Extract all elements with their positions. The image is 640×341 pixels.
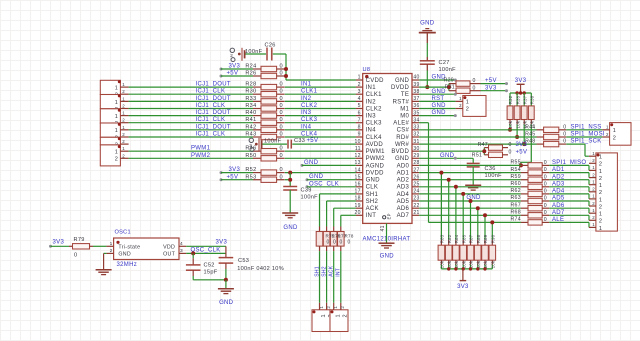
svg-text:IN3: IN3 — [366, 114, 377, 120]
net label IN1 — [301, 82, 312, 88]
svg-text:ICJ1_DOUT: ICJ1_DOUT — [196, 82, 231, 88]
resistor R30 — [245, 89, 284, 97]
svg-text:ICJ1_DOUT: ICJ1_DOUT — [196, 124, 231, 130]
port symbol — [230, 48, 241, 62]
svg-text:2: 2 — [599, 162, 602, 168]
svg-text:1: 1 — [599, 212, 602, 218]
svg-text:GND: GND — [432, 103, 447, 109]
svg-text:1: 1 — [599, 183, 602, 189]
svg-text:2: 2 — [122, 104, 125, 109]
svg-text:RD#: RD# — [396, 135, 409, 141]
svg-text:100nF: 100nF — [301, 195, 319, 201]
svg-text:IN2: IN2 — [366, 99, 377, 105]
svg-text:23: 23 — [413, 196, 419, 202]
svg-text:R63: R63 — [510, 195, 520, 201]
value 32MHz — [117, 262, 138, 268]
node — [505, 89, 508, 92]
svg-text:C26: C26 — [265, 43, 276, 49]
wire — [549, 207, 589, 209]
wire — [419, 129, 536, 131]
resistor R51 — [472, 149, 512, 158]
resistor R33 — [245, 96, 284, 104]
svg-text:2: 2 — [326, 306, 331, 309]
svg-text:2: 2 — [599, 204, 602, 210]
wire — [419, 157, 473, 159]
svg-text:1: 1 — [122, 111, 125, 116]
svg-text:0: 0 — [280, 103, 283, 109]
net label +5V — [227, 71, 239, 77]
junction — [515, 135, 519, 139]
pin 41 EP — [380, 223, 386, 242]
wire — [419, 172, 521, 174]
wire — [510, 92, 531, 94]
svg-text:9: 9 — [358, 132, 361, 138]
wire — [426, 64, 428, 87]
resistor R52 — [245, 167, 284, 175]
svg-text:0: 0 — [327, 240, 330, 246]
svg-text:0: 0 — [544, 217, 547, 223]
svg-text:15pF: 15pF — [204, 270, 218, 276]
svg-text:1: 1 — [115, 86, 118, 92]
ground — [465, 185, 481, 201]
svg-text:R26: R26 — [245, 71, 256, 77]
junction — [523, 91, 526, 94]
svg-text:AD1: AD1 — [397, 171, 410, 177]
net label 3V3 — [229, 64, 241, 70]
svg-text:0: 0 — [544, 160, 547, 166]
resistor R85 (pull-up) — [460, 194, 467, 269]
label AMC1210IRHAT — [363, 237, 411, 243]
resistor R46 — [245, 146, 284, 154]
label R75 R76 R77 R78 — [326, 234, 354, 239]
resistor R34 — [245, 103, 284, 111]
svg-text:R54: R54 — [510, 167, 520, 173]
wire — [588, 173, 590, 178]
svg-text:+5V: +5V — [516, 149, 528, 155]
svg-text:26: 26 — [413, 174, 419, 180]
node 3V3 stub — [220, 68, 254, 71]
node — [306, 178, 309, 181]
svg-text:1: 1 — [592, 165, 595, 170]
svg-text:C36: C36 — [485, 166, 496, 172]
node — [220, 178, 223, 181]
svg-text:3V3: 3V3 — [516, 142, 528, 148]
svg-text:R60: R60 — [510, 181, 520, 187]
svg-text:10k: 10k — [515, 120, 520, 128]
svg-text:10k: 10k — [476, 260, 481, 268]
svg-text:CS#: CS# — [397, 128, 410, 134]
net label INT — [336, 268, 342, 277]
port symbol — [249, 138, 258, 152]
wire — [549, 179, 589, 181]
net label GND — [432, 75, 447, 81]
resistor R48 — [525, 139, 566, 147]
wire — [129, 115, 253, 117]
svg-text:0: 0 — [544, 189, 547, 195]
resistor R79 — [69, 237, 93, 259]
svg-text:INT: INT — [336, 268, 342, 277]
net label AD3 — [552, 181, 565, 187]
node — [454, 114, 457, 117]
wire — [192, 253, 194, 265]
svg-text:SH2: SH2 — [321, 266, 327, 277]
svg-text:R67: R67 — [510, 202, 520, 208]
svg-text:1: 1 — [599, 226, 602, 232]
net label +5V — [485, 78, 497, 84]
svg-text:0: 0 — [333, 240, 336, 246]
resistor R45 — [525, 132, 566, 140]
net label GND — [432, 103, 447, 109]
svg-text:R43: R43 — [245, 132, 256, 138]
wire — [566, 136, 602, 138]
svg-text:3V3: 3V3 — [515, 78, 527, 84]
junction — [522, 142, 526, 146]
svg-text:0: 0 — [509, 142, 512, 148]
node — [301, 164, 304, 167]
svg-text:R88: R88 — [476, 234, 481, 243]
wire — [307, 186, 356, 188]
svg-text:0: 0 — [280, 64, 283, 70]
wire — [588, 194, 590, 199]
svg-text:10k: 10k — [508, 120, 513, 128]
svg-text:M1: M1 — [400, 106, 409, 112]
svg-text:ICJ1_DOUT: ICJ1_DOUT — [196, 96, 231, 102]
svg-text:1: 1 — [115, 128, 118, 134]
svg-text:2: 2 — [466, 107, 469, 113]
resistor R76 — [323, 227, 330, 303]
svg-text:R37: R37 — [522, 95, 527, 104]
svg-text:R34: R34 — [245, 103, 256, 109]
wire — [221, 179, 253, 181]
capacitor (series) — [242, 48, 245, 61]
resistor R75 — [316, 227, 323, 303]
junction — [482, 149, 486, 153]
wire — [549, 200, 589, 202]
resistor R35 (pull-up) — [514, 93, 520, 137]
net label GND — [440, 153, 455, 159]
svg-text:OSC_CLK: OSC_CLK — [191, 247, 221, 253]
svg-text:IN1: IN1 — [366, 85, 377, 91]
wire — [93, 245, 106, 247]
svg-text:29: 29 — [413, 153, 419, 159]
wire — [285, 100, 356, 102]
svg-text:5: 5 — [358, 103, 361, 109]
svg-text:1: 1 — [122, 96, 125, 101]
resistor R83 (pull-up) — [438, 173, 445, 269]
resistor R88 (pull-up) — [474, 208, 481, 269]
connector JP (2-pin header) — [456, 96, 486, 117]
node — [49, 245, 52, 248]
resistor R82 (pull-up) — [445, 180, 452, 269]
resistor R40 — [245, 110, 284, 118]
resistor R24 — [245, 64, 284, 72]
svg-text:OSC1: OSC1 — [115, 229, 131, 235]
svg-text:GND: GND — [432, 89, 447, 95]
node — [220, 171, 223, 174]
capacitor C33 — [288, 138, 305, 148]
svg-text:6: 6 — [358, 110, 361, 116]
svg-text:35: 35 — [413, 110, 419, 116]
resistor R55 — [510, 160, 549, 168]
net label CLK1 — [301, 89, 318, 95]
svg-text:1: 1 — [333, 306, 338, 309]
svg-text:CLK2: CLK2 — [366, 106, 383, 112]
junction — [483, 267, 486, 270]
svg-text:AD2: AD2 — [397, 178, 410, 184]
wire — [588, 215, 590, 220]
value 0 0 0 0 — [327, 240, 351, 246]
svg-text:2: 2 — [358, 82, 361, 88]
svg-text:GND: GND — [420, 21, 435, 27]
wire — [588, 201, 590, 206]
resistor R77 — [330, 227, 337, 303]
svg-text:ACK: ACK — [329, 265, 335, 277]
wire — [419, 100, 456, 102]
svg-text:AD0: AD0 — [397, 163, 410, 169]
svg-text:0: 0 — [280, 153, 283, 159]
wire — [129, 86, 253, 88]
svg-text:ICJ1_CLK: ICJ1_CLK — [196, 117, 226, 123]
junction — [490, 220, 494, 224]
wire — [129, 100, 253, 102]
junction — [469, 267, 472, 270]
wire — [419, 186, 521, 188]
wire — [419, 200, 521, 202]
wire — [129, 129, 253, 131]
wire — [302, 164, 356, 166]
junction — [439, 171, 443, 175]
svg-text:PWM1: PWM1 — [191, 146, 211, 152]
svg-text:0: 0 — [280, 132, 283, 138]
svg-text:C52: C52 — [204, 263, 215, 269]
svg-text:ACK: ACK — [366, 206, 379, 212]
resistor R44 — [525, 124, 566, 132]
svg-text:0: 0 — [280, 174, 283, 180]
junction — [462, 267, 465, 270]
svg-text:0: 0 — [544, 210, 547, 216]
wire — [186, 245, 226, 247]
net label SH2 — [321, 266, 327, 277]
wire — [419, 193, 521, 195]
connector J2 (header) — [589, 151, 617, 232]
net label AD7 — [552, 210, 565, 216]
svg-text:10k: 10k — [491, 260, 496, 268]
net label AD5 — [552, 196, 565, 202]
svg-text:R62: R62 — [510, 188, 520, 194]
resistor R90 (pull-up) — [489, 222, 496, 269]
svg-text:EP: EP — [387, 213, 392, 219]
resistor R31 — [445, 84, 481, 93]
svg-text:R87: R87 — [469, 234, 474, 243]
svg-text:2: 2 — [115, 157, 118, 163]
svg-text:GND: GND — [366, 178, 381, 184]
net label 3V3 — [216, 239, 228, 245]
svg-text:0: 0 — [544, 167, 547, 173]
resistor R42 — [245, 124, 284, 132]
svg-text:R29: R29 — [444, 77, 454, 83]
supply 3V3 — [457, 269, 469, 290]
net label ICJ1_CLK — [196, 103, 226, 109]
svg-text:CVDD: CVDD — [366, 78, 385, 84]
wire — [419, 115, 455, 117]
wire — [419, 179, 521, 181]
junction — [284, 74, 288, 78]
connector ICJ2 (2-pin header) — [100, 94, 128, 113]
svg-text:R38: R38 — [530, 95, 535, 104]
wire — [129, 93, 253, 95]
svg-text:2: 2 — [599, 219, 602, 225]
svg-text:ALE#: ALE# — [393, 121, 409, 127]
svg-text:0: 0 — [544, 203, 547, 209]
svg-text:CLK3: CLK3 — [366, 121, 383, 127]
resistor R47 — [478, 142, 512, 150]
svg-text:24: 24 — [413, 189, 419, 195]
wire — [588, 180, 590, 185]
svg-text:PWM2: PWM2 — [366, 156, 386, 162]
wire — [129, 108, 253, 110]
wire — [285, 150, 356, 152]
svg-text:C27: C27 — [439, 60, 450, 66]
svg-text:1: 1 — [110, 241, 113, 247]
svg-text:Tri-state: Tri-state — [118, 245, 140, 251]
resistor R50 — [245, 153, 284, 161]
wire — [129, 136, 253, 138]
svg-text:1: 1 — [122, 82, 125, 87]
net label OSC_CLK — [191, 247, 221, 253]
net label +5V — [227, 174, 239, 180]
wire — [419, 84, 449, 91]
svg-text:CLK1: CLK1 — [366, 92, 383, 98]
net label SPI1_MOSI — [571, 132, 605, 138]
wire — [51, 245, 70, 247]
svg-text:0: 0 — [280, 124, 283, 130]
svg-text:2: 2 — [592, 201, 595, 206]
node — [454, 79, 457, 82]
net label SPI1_SCK — [571, 139, 602, 145]
svg-text:0: 0 — [280, 117, 283, 123]
net label SH1 — [314, 266, 320, 277]
svg-text:SH1: SH1 — [366, 192, 379, 198]
svg-text:0: 0 — [280, 82, 283, 88]
svg-text:1: 1 — [592, 194, 595, 199]
junction — [519, 91, 522, 94]
net label SPI1_MISO — [552, 160, 586, 166]
svg-text:3: 3 — [180, 248, 183, 254]
svg-text:1: 1 — [592, 208, 595, 213]
net label IN4 — [301, 124, 312, 130]
resistor R53 — [245, 174, 284, 182]
net label IN3 — [301, 110, 312, 116]
wire — [419, 148, 484, 155]
svg-text:R52: R52 — [245, 167, 256, 173]
svg-text:R90: R90 — [491, 234, 496, 243]
svg-text:R28: R28 — [245, 82, 256, 88]
wire — [419, 164, 521, 166]
junction — [454, 267, 457, 270]
wire — [549, 214, 589, 216]
wire — [104, 252, 107, 254]
svg-text:R33: R33 — [245, 96, 256, 102]
connector JB1 (2-pin header) — [312, 303, 334, 332]
svg-text:R85: R85 — [461, 234, 466, 243]
ground — [96, 253, 112, 274]
svg-text:2: 2 — [592, 187, 595, 192]
svg-text:2: 2 — [606, 132, 609, 137]
svg-text:10k: 10k — [454, 260, 459, 268]
node — [505, 82, 508, 85]
svg-text:10k: 10k — [440, 260, 445, 268]
resistor R89 (pull-up) — [482, 215, 489, 269]
svg-text:1: 1 — [599, 197, 602, 203]
junction — [476, 267, 479, 270]
capacitor C26 — [265, 43, 276, 61]
svg-text:4: 4 — [358, 96, 361, 102]
svg-text:CLK4: CLK4 — [366, 135, 383, 141]
svg-text:38: 38 — [413, 89, 419, 95]
svg-text:1: 1 — [122, 146, 125, 151]
wire — [419, 79, 455, 81]
junction — [461, 192, 465, 196]
net label 3V3 — [485, 85, 497, 91]
resistor R26 — [245, 71, 284, 79]
svg-text:AVDD: AVDD — [366, 142, 384, 148]
svg-text:2: 2 — [342, 314, 348, 317]
svg-text:36: 36 — [413, 103, 419, 109]
svg-text:R83: R83 — [440, 234, 445, 243]
net label AD6 — [552, 203, 565, 209]
junction — [191, 251, 195, 255]
net label ALE — [552, 217, 564, 223]
svg-text:0: 0 — [340, 240, 343, 246]
svg-text:GND: GND — [440, 153, 455, 159]
svg-text:1: 1 — [466, 100, 469, 106]
resistor R87 (pull-up) — [467, 201, 474, 269]
svg-text:31: 31 — [413, 139, 419, 145]
svg-text:R89: R89 — [483, 234, 488, 243]
net label ICJ1_DOUT — [196, 82, 231, 88]
resistor R78 — [338, 227, 345, 303]
capacitor C52 — [186, 263, 218, 276]
svg-text:1: 1 — [358, 75, 361, 81]
wire — [419, 108, 456, 110]
value 100nF — [245, 49, 263, 55]
svg-text:0: 0 — [280, 146, 283, 152]
wire — [285, 157, 356, 159]
junction — [454, 185, 458, 189]
net label ICJ1_DOUT — [196, 110, 231, 116]
junction — [447, 267, 450, 270]
net label 3V3 — [516, 142, 528, 148]
resistor R62 — [510, 188, 549, 196]
wire — [441, 268, 492, 270]
svg-text:0: 0 — [473, 85, 476, 91]
svg-text:1: 1 — [115, 100, 118, 106]
wire — [285, 136, 356, 138]
ground — [218, 289, 234, 306]
wire — [588, 222, 590, 227]
svg-text:TE: TE — [401, 92, 409, 98]
node +5V stub — [220, 75, 254, 78]
svg-text:SH2: SH2 — [366, 199, 379, 205]
svg-text:R59: R59 — [510, 174, 520, 180]
svg-text:1: 1 — [592, 222, 595, 227]
resistor R28 — [245, 82, 284, 90]
svg-text:2: 2 — [459, 103, 462, 108]
svg-text:0: 0 — [473, 78, 476, 84]
connector ICJ1 (2-pin header) — [100, 80, 128, 98]
net label ICJ1_DOUT — [196, 124, 231, 130]
svg-text:25: 25 — [413, 182, 419, 188]
